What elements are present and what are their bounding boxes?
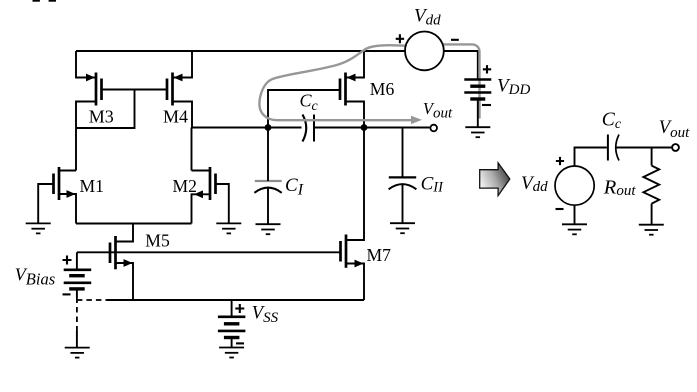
wire equivalent source top bbox=[575, 148, 607, 167]
wire top supply rail from left corner to VDD battery bbox=[76, 51, 478, 80]
svg-text:Vdd: Vdd bbox=[414, 6, 441, 29]
svg-text:Cc: Cc bbox=[300, 90, 319, 114]
plus sign of VSS bbox=[235, 304, 244, 313]
svg-text:M3: M3 bbox=[89, 107, 114, 127]
capacitor CI bbox=[254, 181, 281, 193]
transistor M5 bbox=[110, 236, 133, 269]
wire node A up to M6 gate bbox=[268, 90, 340, 128]
gray feedthrough path through Vdd source bbox=[259, 44, 479, 120]
node B second-stage output junction bbox=[361, 124, 368, 131]
capacitor Cc equivalent bbox=[608, 135, 619, 161]
svg-text:M7: M7 bbox=[367, 245, 392, 265]
wire M3 drain to M1 drain bbox=[76, 102, 96, 171]
svg-text:M1: M1 bbox=[80, 176, 104, 196]
transistor M1 bbox=[54, 167, 76, 200]
transistor M4 bbox=[167, 73, 183, 106]
battery VSS bbox=[218, 317, 246, 338]
svg-text:VBias: VBias bbox=[15, 265, 55, 289]
svg-text:M4: M4 bbox=[163, 107, 188, 127]
block arrow implies equivalent circuit bbox=[480, 163, 510, 196]
wire gate bias rail M5-M7 bbox=[77, 251, 340, 253]
wire equivalent source to ground bbox=[574, 205, 576, 224]
wire M2 drain vertical bbox=[191, 128, 193, 171]
svg-text:Vout: Vout bbox=[659, 118, 690, 141]
wire gate line M3-M4 bbox=[102, 89, 167, 91]
ground below VBias bbox=[65, 348, 90, 358]
battery VDD bbox=[464, 80, 491, 100]
plus sign of VDD bbox=[483, 65, 491, 73]
wire M3 source drop bbox=[76, 51, 95, 78]
wire M6 source to rail bbox=[346, 51, 365, 78]
plus sign of VBias bbox=[63, 256, 72, 265]
wire M1 drain bbox=[59, 170, 76, 172]
wire VBias ground stub bbox=[76, 331, 78, 348]
svg-text:M6: M6 bbox=[370, 79, 395, 99]
wire M2 drain bbox=[192, 170, 211, 172]
voltage source Vdd equivalent (circle) bbox=[555, 166, 594, 205]
transistor M6 bbox=[340, 73, 356, 106]
plus sign of equivalent source bbox=[556, 157, 564, 165]
wire negative rail bbox=[107, 299, 364, 301]
plus sign of Vdd bbox=[396, 34, 404, 43]
terminal Vout equivalent bbox=[672, 144, 679, 151]
svg-text:Vout: Vout bbox=[423, 99, 453, 121]
wire resistor to ground bbox=[651, 204, 653, 225]
wire differential pair source junction bbox=[76, 223, 192, 225]
ground below CII bbox=[390, 223, 415, 233]
wire VDD battery to ground bbox=[477, 99, 479, 127]
wire M1 gate to ground bbox=[38, 184, 53, 223]
transistor M3 bbox=[86, 73, 102, 106]
wire Cc right plate to Vout terminal bbox=[314, 127, 430, 129]
resistor Rout bbox=[643, 166, 659, 204]
svg-text:Cc: Cc bbox=[602, 110, 622, 133]
wire CII to ground bbox=[402, 185, 404, 223]
svg-text:VDD: VDD bbox=[497, 76, 530, 99]
wire resistor top bbox=[651, 148, 653, 166]
wire CI to ground bbox=[267, 188, 269, 224]
node A first-stage output junction bbox=[265, 124, 272, 131]
wire VSS battery top bbox=[231, 300, 233, 317]
wire M4 drain down to output node of first stage bbox=[173, 102, 193, 128]
minus sign of VDD bbox=[482, 104, 491, 106]
transistor M2 bbox=[194, 167, 216, 200]
wire M4 source to rail bbox=[173, 51, 193, 78]
minus sign of Vdd bbox=[451, 39, 459, 41]
wire M6 drain to node B bbox=[346, 102, 365, 128]
wire first-stage output to Cc left plate bbox=[192, 127, 302, 129]
ground below VSS bbox=[219, 348, 244, 358]
ground below equivalent source bbox=[562, 224, 587, 234]
svg-text:CII: CII bbox=[421, 173, 445, 195]
wire M2 source bbox=[192, 194, 211, 223]
battery VBias bbox=[64, 270, 91, 289]
wire M1 source bbox=[59, 194, 76, 224]
capacitor Cc bbox=[303, 115, 315, 142]
ground below CI bbox=[256, 224, 281, 234]
gray arrow head to Vout bbox=[411, 116, 422, 124]
cropped text remnant at top edge bbox=[33, 0, 40, 2]
wire Cc to Vout equivalent bbox=[616, 147, 672, 149]
minus sign of VSS bbox=[236, 342, 244, 344]
wire dashed link VBias to negative rail bbox=[77, 299, 107, 301]
wire VBias top corner bbox=[76, 252, 78, 269]
svg-text:Rout: Rout bbox=[603, 177, 637, 199]
wire node B down to CII bbox=[402, 128, 404, 178]
wire M3 diode connection gate-to-drain bbox=[76, 90, 135, 129]
wire M2 gate to ground bbox=[216, 184, 229, 223]
ground at M1 gate bbox=[26, 223, 51, 233]
wire node A down to CI bbox=[267, 128, 269, 182]
wire M5 source down to negative rail bbox=[116, 263, 134, 300]
minus sign of equivalent source bbox=[556, 208, 564, 210]
terminal Vout bbox=[430, 125, 437, 132]
wire junction tap to M5 drain bbox=[116, 224, 134, 242]
wire dashed VBias to ground bbox=[76, 289, 78, 298]
cropped text remnant at top edge bbox=[49, 0, 56, 2]
capacitor CII bbox=[389, 177, 417, 189]
ground at M2 gate bbox=[216, 223, 241, 233]
svg-text:Vdd: Vdd bbox=[521, 173, 548, 195]
wire VSS battery to ground bbox=[231, 338, 233, 348]
svg-text:M5: M5 bbox=[145, 230, 170, 250]
svg-text:M2: M2 bbox=[173, 176, 197, 196]
svg-text:CI: CI bbox=[285, 175, 304, 199]
ground below VDD bbox=[465, 127, 490, 137]
transistor M7 bbox=[341, 235, 364, 268]
wire node B down to M7 drain bbox=[346, 128, 364, 241]
wire M7 source down to negative rail bbox=[346, 264, 364, 301]
voltage source Vdd (circle) bbox=[405, 32, 444, 71]
minus sign of VBias bbox=[63, 293, 71, 295]
svg-text:VSS: VSS bbox=[252, 304, 279, 326]
ground below resistor bbox=[639, 225, 664, 235]
